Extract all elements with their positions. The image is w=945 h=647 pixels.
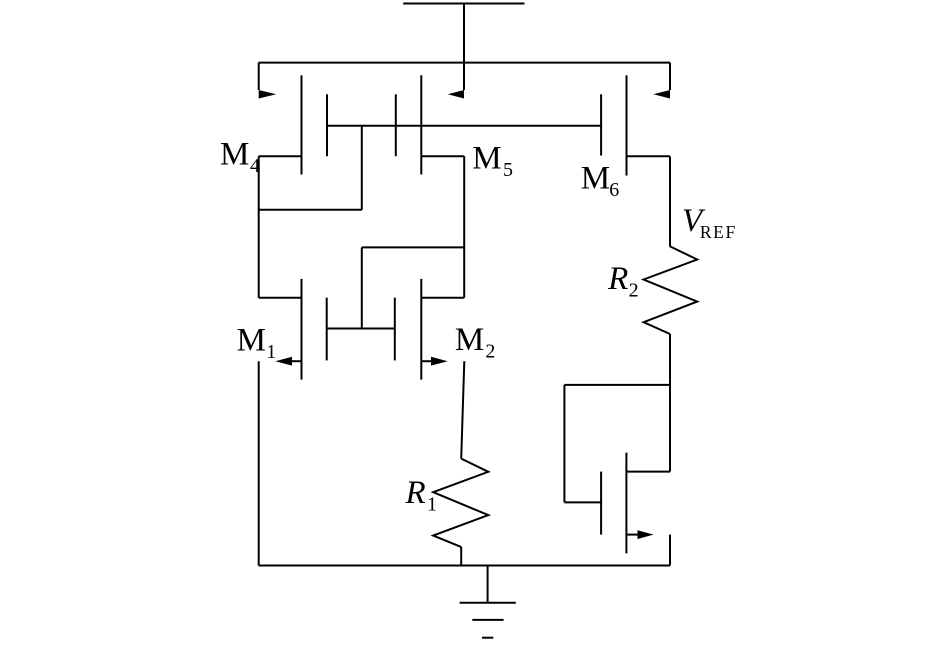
svg-text:M: M — [455, 322, 484, 358]
svg-text:5: 5 — [503, 159, 513, 181]
svg-text:R: R — [607, 261, 628, 297]
svg-text:M: M — [581, 161, 610, 197]
svg-text:1: 1 — [427, 494, 437, 516]
svg-text:M: M — [237, 323, 266, 359]
svg-text:M: M — [472, 141, 501, 177]
svg-text:2: 2 — [485, 340, 495, 362]
svg-text:4: 4 — [250, 155, 260, 177]
svg-text:M: M — [220, 136, 249, 172]
svg-text:6: 6 — [609, 179, 619, 201]
svg-text:REF: REF — [700, 222, 737, 242]
svg-text:1: 1 — [266, 341, 276, 363]
svg-text:2: 2 — [629, 279, 639, 301]
svg-text:R: R — [405, 475, 426, 511]
